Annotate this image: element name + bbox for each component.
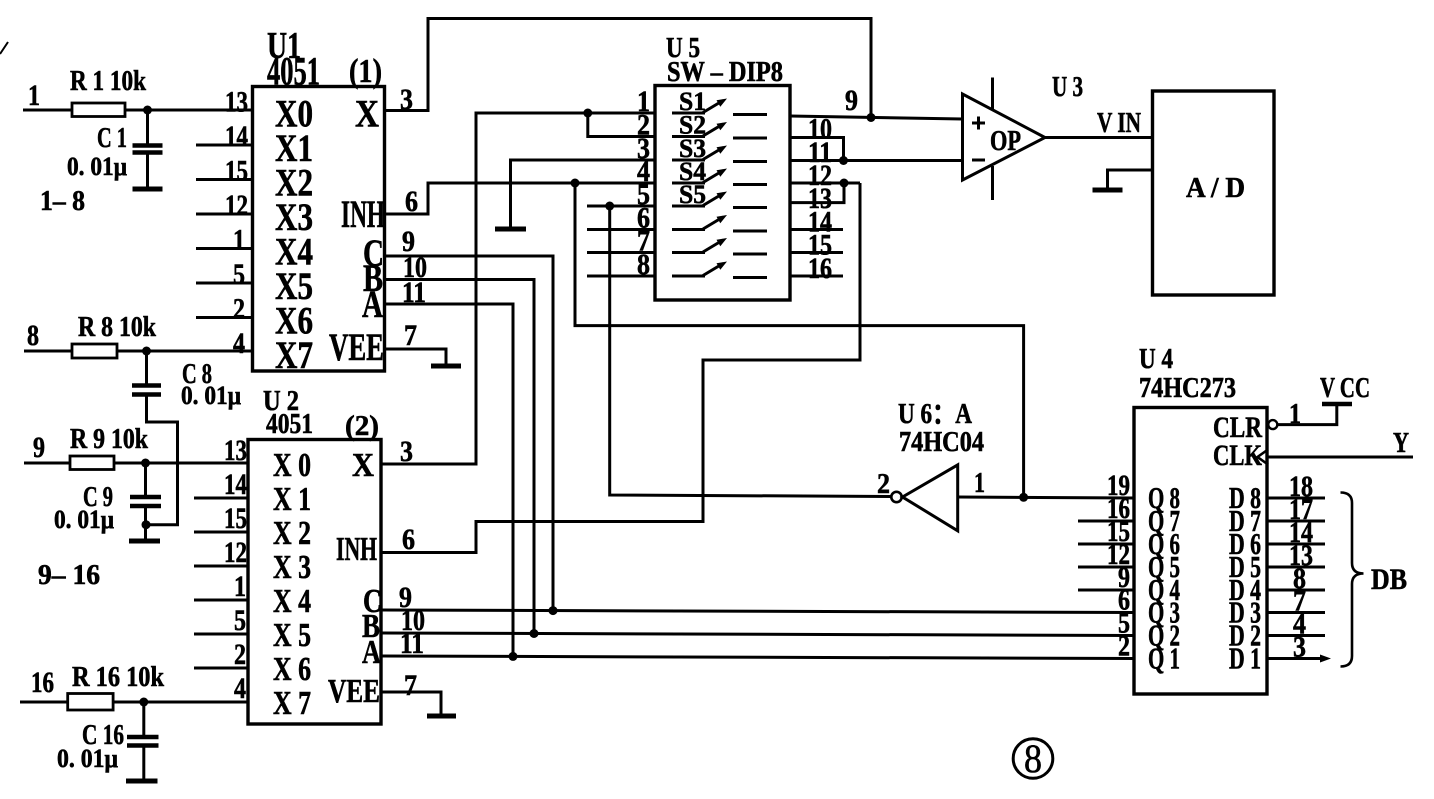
svg-text:2: 2 — [1118, 630, 1130, 663]
wire U1 C pin9 down to C bus — [385, 256, 554, 611]
svg-text:4: 4 — [233, 327, 245, 360]
switch S3 inside U5 — [672, 134, 767, 163]
VCC power symbol — [1320, 373, 1370, 404]
wire CLK to Y — [1267, 456, 1413, 459]
svg-text:X 3: X 3 — [273, 549, 311, 586]
junction U5 pin 5 — [605, 202, 614, 211]
svg-text:X 1: X 1 — [273, 481, 311, 518]
junction node R8/C8 — [142, 347, 151, 356]
junction top rail / U5 pin 9 line — [867, 113, 876, 122]
svg-text:V CC: V CC — [1320, 373, 1370, 404]
wire U4 D stub pin 4 — [1267, 634, 1325, 637]
wire U2 pin 5 stub — [194, 633, 248, 636]
wire R16 to U2 pin 4 — [113, 701, 248, 704]
svg-text:U 4: U 4 — [1139, 344, 1173, 375]
wire U5 pins12/13 to U2 INH pin 6 — [381, 183, 860, 553]
wire op-amp power top — [991, 78, 994, 111]
capacitor C16 0.01u — [57, 702, 159, 779]
node 16 (input 16) — [20, 666, 68, 702]
wire U4 D stub pin 13 — [1267, 566, 1325, 569]
wire U5 pin 2 up to pin 1 line — [588, 113, 655, 137]
svg-text:CLK: CLK — [1213, 439, 1262, 472]
junction C bus — [549, 606, 558, 615]
wire U4 D stub pin 14 — [1267, 543, 1325, 546]
wire U5 pin 13 up to pin 12 line — [790, 183, 844, 203]
wire U5 pin 7 stub — [587, 251, 655, 254]
wire U2 pin 2 stub — [194, 667, 248, 670]
wire U5 pin4 line down and right to inverter input net — [575, 183, 1024, 497]
svg-text:13: 13 — [224, 434, 247, 467]
svg-text:4051: 4051 — [266, 408, 313, 440]
svg-text:R 1 10k: R 1 10k — [70, 66, 146, 97]
wire U1 A pin11 down to A bus — [385, 304, 514, 656]
wire CLR to VCC — [1278, 405, 1337, 425]
svg-text:14: 14 — [224, 468, 247, 501]
wire U5 pin 16 stub — [790, 275, 843, 278]
wire U4 pin 15 stub — [1078, 543, 1134, 546]
wire C8 bottom to C9 bottom — [146, 395, 178, 525]
wire U5 pin 8 stub — [587, 275, 655, 278]
svg-text:A: A — [362, 283, 383, 326]
wire R9 to U2 pin 13 — [114, 462, 248, 465]
junction on U5 pin4 line — [571, 179, 580, 188]
resistor R8 10k — [72, 312, 156, 358]
wire U2 pin 15 stub — [194, 531, 248, 534]
svg-text:74HC273: 74HC273 — [1139, 373, 1236, 404]
svg-text:1– 8: 1– 8 — [40, 186, 85, 217]
wire B bus U2 pin10 to U4 pin5 — [381, 633, 1134, 636]
wire U5 pin 3 to ground — [511, 160, 656, 227]
junction A bus — [509, 652, 518, 661]
svg-text:A: A — [362, 634, 381, 671]
inverter U6:A 74HC04 — [891, 399, 984, 531]
svg-text:V IN: V IN — [1097, 108, 1141, 139]
junction node R16/C16 — [139, 698, 148, 707]
wire U2 X pin3 up to U5 pin 1 — [381, 113, 655, 464]
svg-text:OP: OP — [990, 126, 1021, 157]
wire U4 pin 9 stub — [1078, 589, 1134, 592]
junction U5 pin1/pin2 — [583, 109, 592, 118]
switch S6 inside U5 — [672, 215, 767, 231]
wire U5 pin 9 to op-amp + input — [790, 116, 963, 119]
svg-text:9: 9 — [845, 84, 858, 117]
svg-text:2: 2 — [233, 293, 245, 326]
svg-text:X: X — [352, 447, 374, 484]
svg-text:X 0: X 0 — [273, 447, 311, 484]
wire U1 pin 12 stub — [196, 213, 253, 216]
ground (U5 pin 3) — [495, 227, 526, 232]
svg-text:S5: S5 — [679, 180, 706, 209]
wire R1 to U1 pin 13 — [125, 109, 253, 112]
switch S7 inside U5 — [672, 238, 767, 254]
wire U5 pin 5 to inverter output — [587, 205, 655, 208]
wire U4 pin 16 stub — [1078, 520, 1134, 523]
wire U2 pin 12 stub — [194, 565, 248, 568]
svg-text:D 1: D 1 — [1229, 641, 1261, 676]
svg-text:(2): (2) — [345, 410, 379, 442]
junction U5 pin10/pin11 — [839, 156, 848, 165]
wire U5 pin 14 stub — [790, 228, 843, 231]
svg-text:2: 2 — [877, 469, 890, 500]
svg-text:9– 16: 9– 16 — [38, 560, 100, 591]
junction node R1/C1 — [143, 106, 152, 115]
wire op-amp output to A/D (V IN) — [1045, 136, 1153, 139]
svg-text:74HC04: 74HC04 — [899, 427, 984, 458]
wire U1 INH pin6 to U5 pin 4 — [385, 183, 656, 214]
wire inverter input to U4 Q8 pin 19 — [958, 497, 1134, 498]
svg-text:Q 1: Q 1 — [1148, 641, 1180, 676]
wire U1 pin 1 stub — [196, 247, 253, 250]
svg-text:7: 7 — [404, 319, 417, 352]
svg-text:VEE: VEE — [328, 673, 380, 710]
switch S4 inside U5 — [672, 157, 767, 186]
node 8 (input 8) — [24, 319, 72, 352]
svg-text:Y: Y — [1393, 428, 1409, 459]
svg-text:X 7: X 7 — [273, 685, 311, 722]
junction C8/C9 ground node — [142, 520, 151, 529]
op-amp U3 triangle — [963, 94, 1046, 180]
wire U4 D stub pin 7 — [1267, 611, 1325, 614]
switch S5 inside U5 — [672, 180, 767, 209]
wire U5 pin 15 stub — [790, 251, 843, 254]
svg-text:R 8 10k: R 8 10k — [78, 312, 156, 343]
svg-text:12: 12 — [224, 536, 247, 569]
svg-text:INH: INH — [341, 193, 385, 236]
svg-text:8: 8 — [1024, 736, 1042, 781]
junction inverter input / Q8 — [1019, 493, 1028, 502]
arrowhead on D1 stub — [1320, 655, 1331, 663]
svg-text:INH: INH — [336, 531, 377, 568]
svg-text:1: 1 — [28, 79, 40, 112]
switch S2 inside U5 — [672, 111, 767, 140]
A/D converter block — [1153, 91, 1275, 295]
wire U5 pin 6 stub — [587, 228, 655, 231]
svg-text:U 6：A: U 6：A — [898, 399, 973, 430]
wire U2 VEE pin 7 to ground — [381, 692, 441, 714]
ground (U2 VEE) — [427, 714, 456, 719]
wire U4 D stub pin 8 — [1267, 589, 1325, 592]
svg-text:12: 12 — [225, 189, 248, 222]
resistor R9 10k — [70, 424, 148, 470]
switch S8 inside U5 — [672, 262, 767, 278]
svg-text:0. 01μ: 0. 01μ — [67, 152, 127, 181]
svg-text:16: 16 — [31, 666, 54, 699]
ground (A/D) — [1093, 188, 1123, 193]
svg-text:13: 13 — [225, 86, 248, 119]
wire op-amp power bottom — [991, 166, 994, 200]
ground (C16) — [126, 779, 158, 784]
ground (C1) — [133, 187, 163, 192]
svg-text:0. 01μ: 0. 01μ — [54, 505, 114, 534]
wire U1 pin 2 stub — [196, 316, 253, 319]
wire U1 pin 5 stub — [196, 282, 253, 285]
latch IC U4 74HC273 body — [1134, 344, 1267, 694]
svg-text:DB: DB — [1371, 563, 1407, 596]
svg-text:4: 4 — [234, 672, 246, 705]
wire U1 pin 14 stub — [196, 144, 253, 147]
svg-text:15: 15 — [224, 502, 247, 535]
svg-text:1: 1 — [233, 224, 245, 257]
ground (U1 VEE) — [431, 364, 461, 369]
svg-text:X 4: X 4 — [273, 583, 311, 620]
DIP switch U5 SW-DIP8 body — [655, 33, 790, 300]
analog mux IC U2 4051 (2) body — [248, 386, 382, 724]
svg-text:R 16 10k: R 16 10k — [72, 662, 164, 693]
svg-text:(1): (1) — [349, 53, 382, 90]
junction B bus — [530, 629, 539, 638]
ground (C9) — [129, 539, 160, 544]
node 1 (input 1) — [23, 79, 72, 112]
wire U2 pin 1 stub — [194, 599, 248, 602]
wire U2 pin 14 stub — [194, 497, 248, 500]
wire R8 to U1 pin 4 — [117, 350, 253, 353]
wire U4 D stub pin 18 — [1267, 497, 1325, 500]
svg-text:14: 14 — [225, 120, 248, 153]
svg-text:4051: 4051 — [267, 49, 320, 94]
capacitor C9 0.01u — [54, 463, 161, 539]
wire U4 D stub pin 3 — [1267, 657, 1325, 660]
svg-text:U 3: U 3 — [1052, 72, 1083, 103]
stray scan mark — [0, 42, 8, 54]
svg-text:2: 2 — [234, 638, 246, 671]
DB bus brace — [1341, 493, 1364, 667]
svg-text:VEE: VEE — [329, 326, 384, 369]
svg-text:A / D: A / D — [1186, 173, 1245, 204]
resistor R1 10k — [70, 66, 146, 117]
CLK edge chevron — [1258, 450, 1269, 465]
wire A/D ground stub — [1108, 170, 1153, 188]
svg-text:9: 9 — [33, 431, 45, 464]
svg-text:1: 1 — [974, 468, 985, 499]
wire U5 pin 12 — [790, 182, 860, 185]
svg-text:X7: X7 — [275, 334, 313, 377]
resistor R16 10k — [68, 662, 165, 710]
wire A bus U2 pin11 to U4 pin2 — [381, 656, 1134, 659]
node 9 (input 9) — [24, 431, 70, 464]
wire U5 pin 10 jog down — [790, 138, 844, 161]
wire U1 pin 15 stub — [196, 178, 253, 181]
junction U5 pin12/pin13 — [840, 179, 849, 188]
capacitor C1 0.01u — [67, 110, 163, 187]
svg-text:SW – DIP8: SW – DIP8 — [667, 57, 783, 88]
op-amp mux IC U1 4051 (1) body — [253, 25, 386, 377]
wire U1 VEE pin 7 to ground — [385, 349, 447, 364]
wire U1 B pin10 down to B bus — [385, 280, 535, 634]
svg-text:X 5: X 5 — [273, 617, 311, 654]
junction node R9/C9 — [141, 459, 150, 468]
capacitor C8 0.01u — [132, 351, 241, 410]
svg-text:16: 16 — [808, 252, 832, 285]
svg-text:5: 5 — [234, 604, 246, 637]
svg-text:7: 7 — [404, 669, 417, 702]
figure number circled 8 — [1013, 736, 1053, 781]
wire C bus U2 pin9 to U4 pin6 — [381, 610, 1134, 613]
svg-text:15: 15 — [225, 155, 248, 188]
svg-text:0. 01μ: 0. 01μ — [181, 381, 241, 410]
CLR bubble pin 1 — [1268, 420, 1277, 429]
svg-text:R 9 10k: R 9 10k — [70, 424, 148, 455]
svg-text:8: 8 — [27, 319, 39, 352]
svg-text:1: 1 — [234, 570, 246, 603]
svg-text:0. 01μ: 0. 01μ — [57, 744, 118, 773]
svg-text:X 6: X 6 — [273, 651, 311, 688]
svg-text:5: 5 — [233, 258, 245, 291]
wire U1 X pin3 to top rail to U5 pin 9 — [385, 19, 872, 118]
wire inverter output up to U5 pin5 — [610, 206, 892, 497]
svg-text:X 2: X 2 — [273, 515, 311, 552]
svg-text:C 1: C 1 — [97, 123, 127, 154]
wire U5 pin 11 to op-amp - input — [790, 159, 963, 162]
wire U4 pin 12 stub — [1078, 566, 1134, 569]
switch S1 inside U5 — [672, 87, 767, 116]
wire U4 D stub pin 17 — [1267, 520, 1325, 523]
svg-text:X: X — [355, 93, 379, 136]
